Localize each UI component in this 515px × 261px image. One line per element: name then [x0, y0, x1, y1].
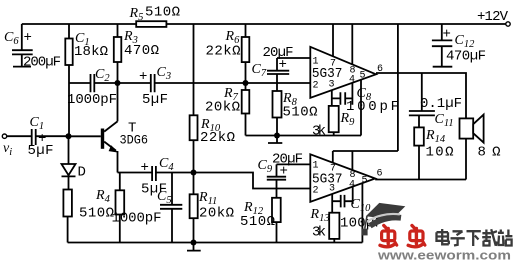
wire lower feedback row — [246, 135, 362, 137]
resistor R10 — [190, 115, 198, 172]
wire R10 column drop — [193, 24, 195, 115]
svg-text:4: 4 — [349, 75, 355, 86]
svg-text:+: + — [139, 69, 147, 85]
wire U2 output pin6 — [375, 179, 466, 181]
wire emitter row — [118, 166, 194, 181]
diode D — [62, 136, 76, 189]
resistor R3 — [114, 24, 122, 81]
ground main — [187, 243, 201, 251]
label R6 — [225, 29, 241, 46]
label 5uF C1 — [28, 143, 54, 159]
label 3DG6 — [120, 134, 149, 148]
op-amp U1 — [310, 47, 376, 98]
label R4 — [95, 188, 111, 205]
speaker — [460, 115, 484, 180]
label C12 — [443, 27, 476, 51]
label R8 — [282, 91, 298, 108]
label 3k R9 — [312, 124, 326, 140]
svg-text:20kΩ: 20kΩ — [199, 206, 234, 222]
svg-text:+: + — [141, 160, 149, 176]
label R5 — [129, 6, 144, 23]
label 1000pF C5 — [112, 211, 162, 227]
ground C12 bar — [433, 66, 453, 68]
label T — [128, 121, 136, 137]
node base junction — [66, 133, 72, 139]
resistor R9 — [329, 90, 339, 135]
label C5 — [157, 189, 172, 206]
op-amp U1 labels — [312, 57, 383, 92]
label 20uF C9 — [272, 152, 303, 168]
svg-text:7: 7 — [330, 164, 336, 175]
label C1 18k — [75, 31, 90, 48]
label C3 plus — [139, 65, 171, 85]
wire U2 pin5 — [361, 183, 363, 243]
label 22kohm R10 — [200, 130, 235, 146]
wire U1 output pin6 — [376, 73, 466, 118]
capacitor C1 input — [7, 129, 66, 145]
label C1 input — [30, 115, 47, 147]
svg-text:22kΩ: 22kΩ — [200, 130, 235, 146]
label 20kohm R11 — [199, 206, 234, 222]
label 18kohm — [74, 44, 108, 60]
label 5uF C3 — [142, 92, 168, 108]
label C11 — [435, 112, 454, 129]
svg-text:200µF: 200µF — [23, 55, 61, 71]
resistor R8 — [273, 91, 282, 136]
svg-text:510Ω: 510Ω — [79, 206, 114, 222]
svg-text:470µF: 470µF — [446, 49, 486, 65]
node R8 ground dot — [274, 133, 280, 139]
svg-text:18kΩ: 18kΩ — [74, 44, 108, 60]
wire U1 pin7 supply — [332, 24, 334, 57]
wire U1 pin1 — [277, 57, 310, 59]
watermark text dianzi xiazaizhan — [437, 229, 513, 246]
svg-text:+12V: +12V — [477, 9, 509, 25]
resistor R13 — [329, 194, 339, 243]
label C7 — [252, 57, 287, 79]
ground C6 bar — [13, 66, 31, 68]
op-amp U2 — [310, 154, 375, 202]
svg-text:5: 5 — [362, 176, 368, 187]
svg-text:510Ω: 510Ω — [283, 105, 318, 121]
label 0.1uF C11 — [420, 96, 462, 112]
svg-text:510Ω: 510Ω — [240, 214, 275, 230]
node R6 R7 junction dot — [243, 80, 249, 86]
resistor R4 left box — [63, 190, 72, 243]
label 470ohm — [124, 43, 159, 59]
label 22kohm R6 — [206, 44, 241, 60]
capacitor C6 — [12, 24, 33, 66]
svg-text:0.1µF: 0.1µF — [420, 96, 462, 112]
resistor R4 right box — [116, 173, 125, 243]
svg-text:5µF: 5µF — [28, 143, 54, 159]
label C8 — [357, 86, 372, 103]
label C4 plus — [141, 156, 175, 176]
capacitor C9 — [267, 164, 286, 197]
svg-text:100pF: 100pF — [346, 99, 399, 115]
transistor T 3DG6 — [101, 81, 119, 173]
label 100pF C8 — [346, 99, 399, 115]
svg-text:www.eeworm.com: www.eeworm.com — [377, 248, 511, 261]
watermark bug 1 — [380, 226, 397, 247]
svg-text:6: 6 — [377, 64, 383, 75]
label 510ohm R5 — [145, 5, 180, 21]
wire U1 pin5 — [360, 80, 362, 136]
svg-text:1000pF: 1000pF — [112, 211, 162, 227]
svg-text:D: D — [78, 165, 86, 181]
node collector junction dot — [115, 80, 121, 86]
resistor R11 — [190, 173, 198, 243]
watermark graduation cap — [362, 203, 405, 236]
svg-text:4: 4 — [349, 180, 355, 191]
wire base — [69, 135, 101, 137]
node ground rail dot — [191, 240, 197, 246]
svg-text:5µF: 5µF — [142, 92, 168, 108]
label 200uF — [23, 55, 61, 71]
svg-text:22kΩ: 22kΩ — [206, 44, 241, 60]
svg-text:1000pF: 1000pF — [67, 92, 117, 108]
wire U2 pin8 — [351, 151, 353, 170]
svg-text:5: 5 — [360, 71, 366, 82]
wire U2 pin1 — [277, 163, 311, 165]
resistor R14 — [414, 127, 424, 179]
svg-text:470Ω: 470Ω — [124, 43, 159, 59]
resistor R12 — [272, 198, 281, 243]
label 510ohm R4 — [79, 206, 114, 222]
wire +12V top rail — [22, 23, 506, 25]
svg-text:1: 1 — [313, 161, 319, 172]
svg-text:2: 2 — [313, 81, 319, 92]
label 510ohm R8 — [283, 105, 318, 121]
svg-text:7: 7 — [330, 59, 336, 70]
label 5uF C4 — [141, 182, 167, 198]
label +12V — [477, 9, 509, 25]
label R7 — [223, 86, 239, 103]
label R14 — [425, 128, 446, 145]
node emitter node dot — [191, 170, 197, 176]
svg-text:+: + — [443, 27, 451, 43]
label 100uF C10 — [340, 216, 383, 232]
svg-text:3DG6: 3DG6 — [120, 134, 149, 148]
wire emitter to U2 pin2 — [194, 173, 311, 189]
watermark url — [377, 248, 511, 261]
svg-text:3: 3 — [329, 80, 335, 91]
label C10 — [351, 197, 372, 214]
label R12 — [243, 200, 264, 217]
resistor R6 — [242, 24, 250, 81]
wire U1 pin8 supply — [351, 24, 353, 65]
svg-text:6: 6 — [377, 169, 383, 180]
label 20uF C7 — [263, 45, 294, 61]
label vi — [3, 141, 12, 158]
capacitor C5 — [160, 173, 182, 243]
label 510ohm R12 — [240, 214, 275, 230]
svg-text:1: 1 — [313, 57, 319, 68]
wire U2 pin7 — [332, 151, 334, 163]
capacitor C7 — [267, 58, 289, 91]
svg-text:3: 3 — [329, 184, 335, 195]
label R11 — [198, 190, 217, 207]
capacitor C11 — [409, 73, 435, 127]
resistor R7 — [242, 85, 250, 136]
label R9 — [340, 111, 356, 128]
label D — [78, 165, 86, 181]
label 470uF C12 — [446, 49, 486, 65]
svg-text:3k: 3k — [312, 124, 326, 140]
op-amp U2 labels — [312, 161, 383, 197]
node +12V terminal — [506, 22, 510, 26]
svg-text:3k: 3k — [312, 225, 326, 241]
svg-text:510Ω: 510Ω — [145, 5, 180, 21]
label 3k R13 — [312, 225, 326, 241]
svg-text:20µF: 20µF — [272, 152, 303, 168]
label C2 — [95, 67, 110, 84]
label 1000pF C2 — [67, 92, 117, 108]
node input terminal — [2, 134, 6, 138]
svg-text:2: 2 — [313, 186, 319, 197]
resistor R5 — [136, 21, 166, 27]
svg-text:+: + — [24, 30, 32, 46]
capacitor C8 — [332, 83, 353, 105]
label C6 — [4, 30, 32, 47]
label 20kohm R7 — [205, 100, 240, 116]
ground feedback row — [268, 136, 282, 144]
label 10ohm R14 — [426, 145, 454, 161]
capacitor C10 — [332, 187, 353, 208]
label R10 — [200, 117, 221, 134]
label R3 — [123, 29, 138, 46]
svg-text:20kΩ: 20kΩ — [205, 100, 240, 116]
resistor C1 18k vertical branch — [65, 24, 72, 134]
capacitor C12 — [432, 24, 452, 66]
wire C2 C3 row — [69, 74, 310, 92]
wire U2 supply drop — [333, 24, 398, 151]
svg-text:20µF: 20µF — [263, 45, 294, 61]
label R13 — [310, 207, 330, 224]
watermark bug 2 — [408, 226, 425, 247]
label C9 — [258, 158, 288, 180]
svg-text:10Ω: 10Ω — [426, 145, 454, 161]
wire ground rail — [68, 242, 363, 244]
label 8ohm speaker — [478, 145, 501, 161]
